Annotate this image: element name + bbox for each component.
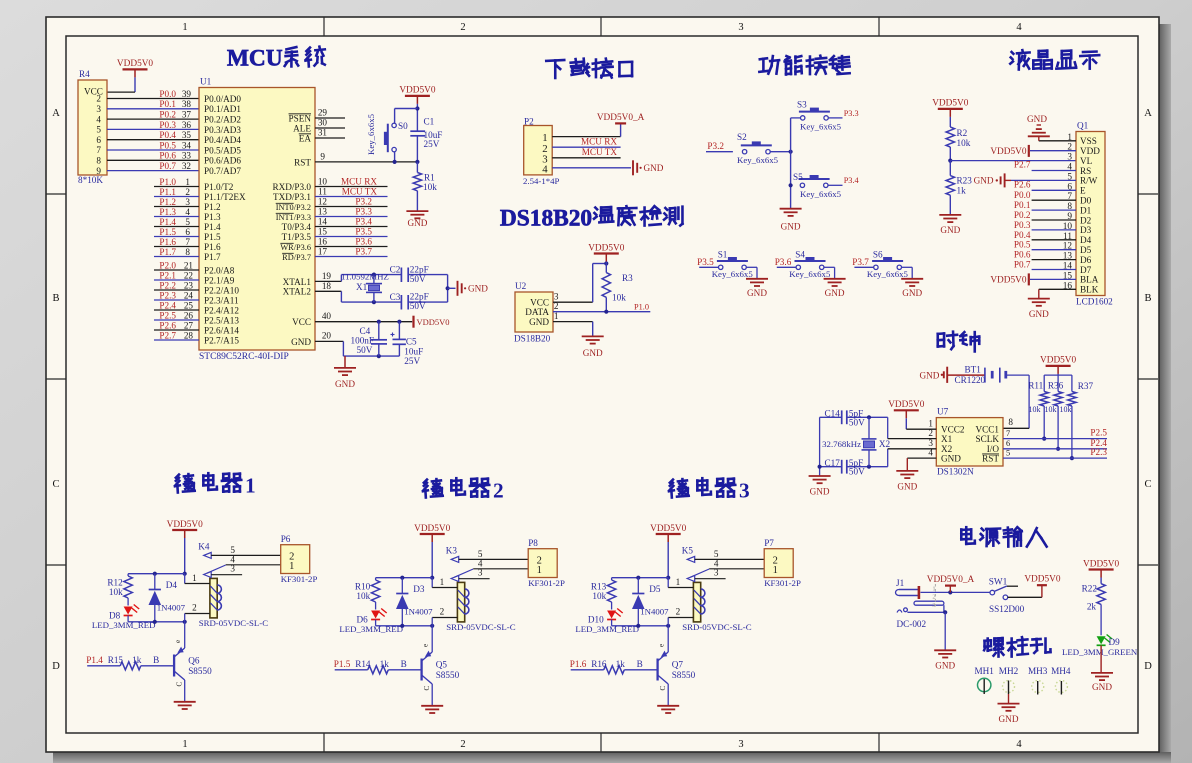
wire S5 to P3.4 [828, 176, 860, 185]
crystal X1 [341, 272, 389, 303]
resistor R3 [602, 264, 633, 312]
svg-text:1k: 1k [616, 659, 626, 669]
transistor Q5 [422, 626, 460, 706]
svg-text:GND: GND [644, 163, 664, 173]
svg-text:D3: D3 [1080, 225, 1092, 235]
wire SW1 to VDD5V0 [1008, 585, 1042, 597]
svg-text:MCU: MCU [227, 46, 283, 72]
svg-text:10k: 10k [592, 591, 606, 601]
svg-text:P0.6: P0.6 [1014, 250, 1031, 260]
svg-text:1: 1 [245, 474, 256, 498]
svg-text:GND: GND [940, 225, 960, 235]
svg-text:RST: RST [294, 157, 311, 167]
svg-text:P3.6: P3.6 [355, 237, 372, 247]
svg-text:S8550: S8550 [436, 670, 460, 680]
svg-text:P0.5: P0.5 [1014, 240, 1031, 250]
power port VDD5V0 (reset) [399, 86, 436, 132]
mount hole MH4 [1051, 666, 1071, 695]
svg-text:Key_6x6x5: Key_6x6x5 [366, 113, 376, 155]
wire relay bottom rail [612, 624, 671, 628]
wires P1 pins [154, 187, 199, 257]
connector P7 [764, 538, 801, 588]
svg-text:33: 33 [182, 151, 192, 161]
wire J1 pin1 [921, 590, 991, 594]
transistor Q6 [174, 622, 212, 702]
relay contacts K5 [687, 549, 764, 582]
ground port (xtal) [458, 281, 489, 296]
svg-text:VSS: VSS [1080, 136, 1097, 146]
wire key branch [393, 109, 418, 164]
power port VDD5V0_A [597, 113, 645, 124]
svg-text:RST: RST [982, 454, 999, 464]
svg-text:P2.7: P2.7 [1014, 160, 1031, 170]
svg-text:P2.0/A8: P2.0/A8 [204, 265, 235, 275]
svg-text:VDD5V0_A: VDD5V0_A [927, 575, 975, 585]
svg-text:3: 3 [1067, 153, 1072, 163]
svg-text:C17: C17 [824, 458, 840, 468]
svg-text:GND: GND [810, 487, 830, 497]
resistor R16 [570, 659, 643, 674]
svg-text:5: 5 [1006, 449, 1010, 458]
svg-text:VCC: VCC [530, 297, 549, 307]
svg-text:P0.1: P0.1 [159, 99, 176, 109]
svg-text:VDD5V0: VDD5V0 [588, 243, 625, 253]
svg-text:50V: 50V [849, 417, 865, 427]
svg-text:GND: GND [919, 370, 939, 380]
svg-text:8: 8 [1008, 417, 1013, 427]
wire RST to P2.3 [1003, 447, 1107, 458]
svg-text:P1.7: P1.7 [204, 252, 221, 262]
svg-text:P0.7: P0.7 [1014, 260, 1031, 270]
led D8 [92, 598, 156, 630]
svg-text:DS18B20: DS18B20 [500, 206, 592, 232]
wire xtal32k left column [818, 417, 822, 476]
svg-text:MCU RX: MCU RX [581, 137, 617, 147]
svg-text:10: 10 [318, 177, 328, 187]
svg-text:19: 19 [322, 271, 332, 281]
svg-text:P6: P6 [281, 534, 291, 544]
svg-text:Key_6x6x5: Key_6x6x5 [867, 269, 909, 279]
wire IO to P2.4 [1003, 438, 1107, 449]
svg-text:32.768kHz: 32.768kHz [822, 439, 861, 449]
svg-text:D9: D9 [1109, 637, 1121, 647]
svg-text:5: 5 [478, 549, 483, 559]
svg-text:e: e [422, 644, 430, 647]
svg-text:25V: 25V [404, 356, 420, 366]
svg-text:e: e [658, 644, 666, 647]
svg-text:D5: D5 [649, 584, 661, 594]
wire S1 to ground [746, 267, 757, 279]
svg-text:P0.0: P0.0 [159, 89, 176, 99]
svg-text:P3.7: P3.7 [355, 247, 372, 257]
svg-text:VDD5V0: VDD5V0 [650, 524, 687, 534]
ground (U7) [896, 471, 918, 492]
svg-text:5: 5 [230, 545, 235, 555]
svg-text:P1.5: P1.5 [159, 227, 176, 237]
svg-text:10k: 10k [356, 591, 370, 601]
svg-text:VDD5V0: VDD5V0 [888, 400, 925, 410]
resistor network R4 [78, 69, 107, 185]
svg-text:SRD-05VDC-SL-C: SRD-05VDC-SL-C [682, 622, 752, 632]
resistor R10 [355, 578, 380, 602]
title download interface [546, 59, 632, 78]
svg-text:P0.0/AD0: P0.0/AD0 [204, 94, 241, 104]
ground (S4) [824, 279, 846, 298]
capacitor C1 [410, 117, 442, 162]
battery BT1 [955, 365, 1006, 385]
mount hole MH2 [999, 666, 1019, 704]
svg-text:23: 23 [184, 280, 194, 290]
title LCD display [1010, 50, 1099, 69]
svg-text:1k: 1k [380, 659, 390, 669]
wire R36 to IO [1056, 406, 1060, 451]
resistor R36 [1045, 380, 1064, 414]
svg-text:GND: GND [291, 337, 311, 347]
svg-text:Key_6x6x5: Key_6x6x5 [800, 122, 842, 132]
svg-text:MH2: MH2 [999, 666, 1019, 676]
svg-text:6: 6 [96, 135, 101, 145]
svg-text:J1: J1 [896, 578, 905, 588]
svg-text:GND: GND [468, 283, 488, 293]
svg-text:1: 1 [554, 311, 559, 321]
crystal X2 [822, 417, 890, 466]
svg-text:1: 1 [289, 561, 294, 572]
svg-text:P0.1: P0.1 [1014, 200, 1031, 210]
svg-text:P0.5: P0.5 [159, 140, 176, 150]
wire base Q6 [141, 665, 174, 667]
svg-text:Key_6x6x5: Key_6x6x5 [737, 155, 779, 165]
key S2 [737, 132, 779, 165]
svg-text:X1: X1 [941, 434, 953, 444]
svg-text:P1.6: P1.6 [204, 242, 221, 252]
wire U2 DATA to P1.0 [553, 301, 650, 314]
svg-text:S8550: S8550 [188, 666, 212, 676]
wire J1 shield to ground [943, 610, 947, 650]
svg-text:P2.4: P2.4 [159, 300, 176, 310]
svg-text:D6: D6 [356, 615, 368, 625]
svg-text:DS18B20: DS18B20 [514, 334, 551, 344]
svg-text:DATA: DATA [525, 307, 549, 317]
mount hole MH3 [1028, 666, 1048, 695]
wire pullup rail [1044, 375, 1072, 391]
svg-text:P1.2: P1.2 [204, 202, 221, 212]
svg-text:34: 34 [182, 140, 192, 150]
svg-text:16: 16 [318, 237, 328, 247]
svg-text:37: 37 [182, 110, 192, 120]
svg-text:U2: U2 [515, 281, 527, 291]
capacitor C17 [824, 458, 865, 477]
svg-text:GND: GND [902, 288, 922, 298]
wire U2 VCC [553, 261, 608, 302]
lcd Q1 box [1063, 121, 1113, 307]
wire P3.2 to S2 [706, 141, 733, 152]
connector P6 [281, 534, 318, 584]
clock U7 box [928, 407, 1010, 477]
svg-text:DC-002: DC-002 [897, 619, 927, 629]
svg-text:R2: R2 [957, 128, 968, 138]
svg-text:MH4: MH4 [1051, 666, 1071, 676]
wire P2 pin4 to GND [552, 167, 631, 169]
svg-text:P0.3: P0.3 [1014, 220, 1031, 230]
resistor R11 [1028, 380, 1048, 414]
svg-text:P2.5/A13: P2.5/A13 [204, 315, 239, 325]
power port VDD5V0 (R4) [117, 59, 154, 92]
wire P3.5 to S1 [697, 257, 718, 267]
svg-text:P0.1/AD1: P0.1/AD1 [204, 104, 241, 114]
svg-text:9: 9 [320, 151, 325, 161]
svg-text:50V: 50V [357, 345, 373, 355]
svg-text:P2.1/A9: P2.1/A9 [204, 275, 235, 285]
svg-text:SCLK: SCLK [976, 434, 1000, 444]
svg-text:P1.6: P1.6 [159, 237, 176, 247]
svg-text:P3.3: P3.3 [355, 207, 372, 217]
svg-text:B: B [637, 659, 643, 669]
svg-text:P3.4: P3.4 [355, 217, 372, 227]
svg-text:P2.3/A11: P2.3/A11 [204, 295, 239, 305]
wire E P2.6 [1014, 179, 1076, 190]
svg-text:R23: R23 [957, 176, 973, 186]
ground (relay 3) [657, 706, 679, 713]
svg-text:12: 12 [318, 197, 328, 207]
wire relay top rail [128, 572, 185, 576]
svg-text:4: 4 [542, 163, 548, 175]
svg-text:LED_3MM_GREEN: LED_3MM_GREEN [1062, 647, 1138, 657]
svg-text:RD/P3.7: RD/P3.7 [282, 253, 311, 262]
svg-text:10k: 10k [957, 138, 971, 148]
svg-text:S8550: S8550 [672, 670, 696, 680]
svg-text:P0.4: P0.4 [159, 130, 176, 140]
svg-text:P1.5: P1.5 [204, 232, 221, 242]
svg-text:22pF: 22pF [410, 292, 429, 302]
svg-text:1k: 1k [132, 655, 142, 665]
svg-text:4: 4 [96, 114, 101, 124]
svg-text:D6: D6 [1080, 255, 1092, 265]
ground (keys) [780, 209, 802, 232]
wires P3 pins [315, 177, 388, 257]
svg-text:BT1: BT1 [965, 365, 982, 375]
svg-text:S4: S4 [795, 249, 805, 259]
led D9 green [1062, 635, 1138, 673]
svg-text:P0.2/AD2: P0.2/AD2 [204, 115, 241, 125]
relay coil K4 [185, 541, 269, 627]
svg-text:P2.7/A15: P2.7/A15 [204, 335, 239, 345]
svg-text:18: 18 [322, 281, 332, 291]
key S6 [867, 249, 909, 279]
ground (U2) [582, 336, 604, 358]
svg-text:P1.7: P1.7 [159, 247, 176, 257]
svg-text:7: 7 [96, 145, 101, 155]
svg-text:P2.1: P2.1 [159, 270, 176, 280]
svg-text:Key_6x6x5: Key_6x6x5 [789, 269, 831, 279]
wire BLK to ground [1039, 289, 1076, 298]
svg-text:DS1302N: DS1302N [937, 467, 974, 477]
key S0 (reset button) [366, 113, 408, 155]
svg-text:Key_6x6x5: Key_6x6x5 [712, 269, 754, 279]
svg-text:D5: D5 [1080, 245, 1092, 255]
svg-text:KF301-2P: KF301-2P [281, 574, 318, 584]
ground (relay 1) [174, 702, 196, 709]
svg-text:GND: GND [583, 348, 603, 358]
diode D5 [632, 578, 669, 626]
wire VSS to ground [1039, 136, 1076, 141]
wire relay top rail [612, 576, 669, 580]
svg-text:S1: S1 [718, 249, 728, 259]
svg-text:R15: R15 [108, 655, 124, 665]
svg-text:GND: GND [825, 288, 845, 298]
svg-text:35: 35 [182, 130, 192, 140]
svg-text:13: 13 [318, 207, 328, 217]
svg-text:Key_6x6x5: Key_6x6x5 [800, 189, 842, 199]
power port VDD5V0 (BLA) [990, 273, 1076, 285]
svg-text:Q5: Q5 [436, 659, 448, 669]
wire base Q7 [624, 669, 657, 671]
svg-text:36: 36 [182, 120, 192, 130]
svg-text:P0.6: P0.6 [159, 151, 176, 161]
svg-text:1N4007: 1N4007 [404, 607, 433, 617]
svg-text:3: 3 [739, 479, 750, 503]
svg-text:P1.4: P1.4 [204, 222, 221, 232]
wire SCLK to P2.5 [1003, 428, 1107, 439]
svg-text:P0.3/AD3: P0.3/AD3 [204, 125, 241, 135]
svg-text:P2.7: P2.7 [159, 330, 176, 340]
svg-text:GND: GND [407, 218, 427, 228]
svg-text:R13: R13 [591, 582, 607, 592]
wire battery to VCC1 [1003, 375, 1029, 428]
led D6 [339, 602, 403, 634]
svg-text:MCU TX: MCU TX [342, 187, 378, 197]
wire xtal bottom rail [341, 300, 447, 304]
wire relay top rail [376, 576, 433, 580]
svg-text:P1.3: P1.3 [159, 207, 176, 217]
svg-text:P1.5: P1.5 [334, 659, 351, 669]
svg-text:KF301-2P: KF301-2P [528, 578, 565, 588]
resistor R1 [413, 172, 437, 211]
svg-text:VDD5V0: VDD5V0 [117, 59, 154, 69]
svg-text:29: 29 [318, 108, 328, 118]
svg-text:VDD5V0_A: VDD5V0_A [597, 113, 645, 123]
wire key column [789, 118, 793, 209]
capacitor C3 [390, 292, 429, 312]
svg-text:P8: P8 [528, 538, 538, 548]
svg-text:100nF: 100nF [351, 336, 375, 346]
svg-text:WR/P3.6: WR/P3.6 [280, 243, 311, 252]
svg-text:R1: R1 [424, 172, 435, 182]
power port VDD5V0 (VCC pin) [414, 316, 450, 328]
wire RS P2.7 [1014, 160, 1076, 171]
svg-text:C5: C5 [406, 336, 417, 346]
title relay 3 [669, 478, 750, 502]
net labels P0.0-P0.7 [159, 89, 191, 171]
ground (J1) [934, 650, 956, 670]
svg-text:GND: GND [935, 661, 955, 671]
svg-text:7: 7 [1006, 429, 1010, 438]
svg-text:VDD5V0: VDD5V0 [167, 520, 204, 530]
svg-text:U1: U1 [200, 77, 212, 87]
svg-text:GND: GND [999, 714, 1019, 724]
title MCU section [227, 46, 325, 72]
power port VDD5V0 (DS18B20) [588, 243, 625, 263]
title function keys [759, 56, 849, 75]
ground port (P2) [633, 160, 664, 175]
wire VCC R4 to VDD5V0 [107, 91, 135, 93]
svg-text:28: 28 [184, 330, 194, 340]
power port VDD5V0 (relay 1) [167, 520, 204, 576]
svg-text:5: 5 [714, 549, 719, 559]
title screw holes [984, 637, 1050, 656]
svg-text:P1.4: P1.4 [86, 655, 103, 665]
svg-text:P0.5/AD5: P0.5/AD5 [204, 145, 241, 155]
svg-text:RS: RS [1080, 166, 1091, 176]
svg-text:P2.3: P2.3 [1090, 447, 1107, 457]
svg-text:B: B [401, 659, 407, 669]
svg-text:P3.7: P3.7 [852, 257, 869, 267]
svg-text:P7: P7 [764, 538, 774, 548]
svg-text:20: 20 [322, 331, 332, 341]
ground port (battery) [919, 367, 984, 383]
svg-text:6: 6 [1006, 439, 1010, 448]
svg-text:GND: GND [1092, 682, 1112, 692]
relay contacts K3 [451, 549, 528, 582]
key S4 [789, 249, 831, 279]
svg-text:SRD-05VDC-SL-C: SRD-05VDC-SL-C [446, 622, 516, 632]
svg-text:P3.5: P3.5 [355, 227, 372, 237]
svg-text:VDD5V0: VDD5V0 [1024, 575, 1061, 585]
svg-text:PSEN: PSEN [289, 113, 312, 123]
net labels P1.0-P1.7 [159, 177, 190, 257]
svg-text:3: 3 [554, 292, 559, 302]
transistor Q7 [658, 626, 696, 706]
wire XTAL1 [315, 271, 341, 282]
svg-text:21: 21 [184, 260, 194, 270]
svg-text:3: 3 [478, 568, 483, 578]
svg-text:XTAL2: XTAL2 [283, 287, 312, 297]
svg-text:31: 31 [318, 128, 328, 138]
svg-text:P2.3: P2.3 [159, 290, 176, 300]
wires PSEN ALE EA stubs [315, 108, 345, 139]
svg-text:P3.2: P3.2 [355, 197, 372, 207]
svg-text:VDD5V0: VDD5V0 [990, 147, 1027, 157]
wire P3.6 to S4 [775, 257, 796, 267]
ground (relay 2) [421, 706, 443, 713]
svg-text:22: 22 [184, 270, 194, 280]
svg-text:LCD1602: LCD1602 [1076, 297, 1113, 307]
svg-text:8: 8 [96, 156, 101, 166]
ground (S6) [901, 279, 923, 298]
power port VDD5V0 (switch) [1024, 575, 1061, 586]
svg-text:3: 3 [714, 568, 719, 578]
title relay 1 [175, 473, 256, 497]
svg-text:U7: U7 [937, 407, 949, 417]
capacitor C14 [824, 409, 865, 428]
svg-text:1: 1 [440, 577, 445, 587]
svg-text:2.54-1*4P: 2.54-1*4P [523, 176, 560, 186]
svg-text:2: 2 [676, 606, 681, 616]
wire XTAL2 [315, 281, 341, 302]
wire U2 GND [553, 311, 593, 336]
key S1 [712, 249, 754, 279]
wires P2 pins [154, 270, 199, 340]
svg-text:R16: R16 [591, 659, 607, 669]
ground (D9) [1091, 673, 1113, 692]
power port VDD5V0 (relay 3) [650, 524, 687, 580]
svg-text:P0.7: P0.7 [159, 161, 176, 171]
svg-text:C: C [659, 686, 667, 691]
svg-text:6: 6 [185, 227, 190, 237]
svg-text:50V: 50V [849, 467, 865, 477]
svg-text:MH3: MH3 [1028, 666, 1048, 676]
resistor R15 [86, 655, 159, 670]
svg-text:MCU TX: MCU TX [582, 147, 618, 157]
